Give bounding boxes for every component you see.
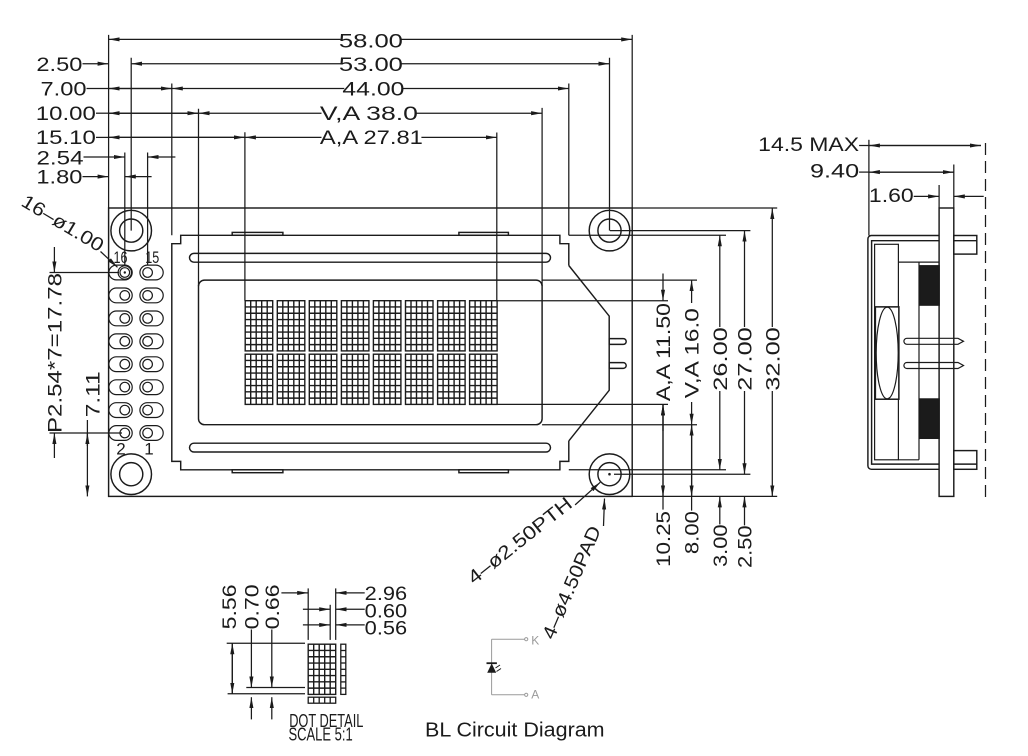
svg-text:26.00: 26.00 [711, 327, 732, 391]
svg-text:3.00: 3.00 [711, 524, 732, 567]
svg-text:A,A 11.50: A,A 11.50 [654, 303, 675, 401]
svg-text:32.00: 32.00 [763, 327, 784, 391]
svg-text:1.80: 1.80 [36, 168, 82, 189]
svg-text:0.70: 0.70 [242, 584, 263, 629]
svg-text:7.00: 7.00 [41, 80, 87, 101]
svg-text:58.00: 58.00 [339, 32, 403, 53]
svg-text:53.00: 53.00 [339, 55, 403, 76]
svg-text:4–ø4.50PAD: 4–ø4.50PAD [539, 523, 606, 642]
svg-text:7.11: 7.11 [84, 371, 105, 417]
svg-text:9.40: 9.40 [810, 162, 859, 183]
svg-text:K: K [531, 633, 539, 647]
svg-text:5.56: 5.56 [220, 584, 241, 629]
svg-text:2: 2 [116, 440, 125, 459]
svg-text:2.54: 2.54 [37, 148, 85, 169]
svg-text:P2.54*7=17.78: P2.54*7=17.78 [45, 273, 66, 433]
svg-text:8.00: 8.00 [683, 511, 704, 554]
svg-text:44.00: 44.00 [342, 80, 404, 101]
svg-text:BL Circuit Diagram: BL Circuit Diagram [425, 719, 605, 741]
svg-text:16–ø1.00: 16–ø1.00 [17, 191, 107, 256]
svg-text:1: 1 [144, 440, 153, 459]
svg-text:V,A 38.0: V,A 38.0 [320, 104, 418, 125]
svg-text:15.10: 15.10 [36, 128, 96, 149]
svg-text:A,A 27.81: A,A 27.81 [320, 128, 423, 149]
svg-text:4–ø2.50PTH: 4–ø2.50PTH [464, 494, 577, 589]
svg-text:10.00: 10.00 [36, 104, 96, 125]
svg-text:2.50: 2.50 [736, 525, 757, 568]
svg-text:V,A 16.0: V,A 16.0 [683, 308, 704, 398]
svg-text:27.00: 27.00 [736, 327, 757, 391]
svg-text:1.60: 1.60 [869, 186, 914, 207]
svg-text:SCALE 5:1: SCALE 5:1 [289, 724, 353, 744]
svg-text:10.25: 10.25 [654, 511, 675, 567]
svg-text:14.5 MAX: 14.5 MAX [758, 135, 859, 156]
svg-text:0.66: 0.66 [263, 584, 284, 629]
svg-text:2.50: 2.50 [36, 55, 82, 76]
svg-text:0.56: 0.56 [365, 619, 408, 640]
svg-text:A: A [531, 688, 539, 702]
